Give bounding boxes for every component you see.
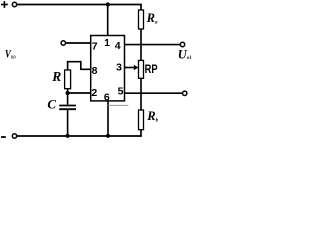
wire: pin 5 to right terminal [125, 92, 183, 94]
wire: bottom rail [17, 135, 142, 137]
node: junction pin-6 wire and bottom rail [106, 134, 110, 138]
wire: Rb bottom down to bottom rail end [140, 130, 142, 137]
svg-text:3: 3 [116, 61, 122, 73]
resistor Ra body [139, 10, 144, 29]
wire: short stub right of pin-6 wire (faint in scan) [108, 104, 129, 106]
capacitor C plates [59, 105, 76, 107]
svg-text:R: R [51, 69, 61, 84]
terminal: output Uo (open circle) [180, 42, 184, 46]
terminal: VDD positive input (top-left, open circle) [12, 2, 16, 6]
minus sign (-) negative supply terminal mark [1, 136, 6, 138]
node: junction of top rail and pin-1 wire [106, 2, 110, 6]
svg-text:5: 5 [118, 85, 124, 97]
wire: RP bottom down to Rb top (crosses pin-5 wire, no dot) [140, 78, 142, 110]
resistor Rb body [139, 110, 144, 130]
wire: pin 8 zigzag to resistor R top [68, 62, 91, 70]
wire: pin 7 to terminal [66, 42, 91, 44]
arrow head of RP wiper [134, 65, 139, 70]
node: junction R / C / pin 2 [66, 91, 70, 95]
wire: pin 6 stub from IC bottom down to bottom rail [107, 101, 109, 136]
wire: pin 1 stub from top rail down to IC top [107, 5, 109, 36]
wire: R bottom to node [67, 89, 69, 94]
svg-text:7: 7 [92, 40, 98, 52]
node: junction C wire and bottom rail [66, 134, 70, 138]
wire: top VDD rail [17, 4, 142, 6]
wire: Ra bottom down to RP top (crosses pin-4 wire, no dot) [140, 29, 142, 60]
terminal: VDD negative input (bottom-left, open circle) [12, 134, 16, 138]
wire: C bottom plate down to bottom rail [67, 110, 69, 136]
svg-text:C: C [47, 96, 56, 111]
plus sign (+) positive supply terminal mark [1, 1, 8, 8]
svg-text:1: 1 [104, 37, 110, 49]
terminal: pin 7 open circle [61, 41, 65, 45]
terminal: pin 5 open circle (right) [183, 91, 187, 95]
wire: pin 4 to output terminal (crosses Ra-RP wire, no dot) [125, 44, 181, 46]
svg-text:2: 2 [91, 87, 97, 99]
wire: pin 2 to node [68, 92, 91, 94]
wire: node down to capacitor C [67, 93, 69, 105]
svg-text:RP: RP [145, 62, 158, 76]
svg-text:6: 6 [104, 91, 110, 103]
svg-text:8: 8 [92, 65, 98, 77]
potentiometer RP body [139, 60, 144, 78]
svg-text:4: 4 [115, 40, 121, 52]
IC U1 box (555-type timer) [91, 36, 125, 101]
wire: top rail corner down to resistor Ra [140, 4, 142, 10]
wire: pin 3 with wiper arrow to RP [125, 67, 135, 69]
resistor R body [65, 70, 71, 89]
